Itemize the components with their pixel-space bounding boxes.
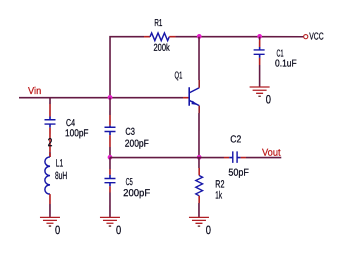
ground under C5: [100, 217, 120, 226]
junction dot at C3/C5 mid bus (110,157): [108, 155, 113, 160]
ground under C1: [250, 87, 270, 96]
wire: emitter down to mid rail: [198, 113, 200, 158]
wire: down from Vin rail: [49, 98, 51, 104]
wire: emitter red pin stub: [198, 106, 200, 113]
C2 right tick: [237, 157, 241, 159]
junction dot at C1 branch (259.6,36): [257, 34, 262, 39]
svg-text:2: 2: [48, 137, 53, 149]
C3 red pin stub top: [109, 115, 111, 126]
C5 red pin stub bottom: [109, 186, 111, 192]
wire: red pin stub into Q1 base: [183, 97, 189, 99]
wire: C4 to L1: [49, 152, 51, 157]
C4 bottom tick: [49, 124, 51, 128]
wire: C1 to ground: [259, 65, 261, 87]
C5 bottom plate: [104, 182, 115, 184]
C1 bottom tick: [259, 54, 261, 58]
wire: top rail collector junction to C1 junction: [199, 36, 260, 38]
svg-text:0: 0: [55, 223, 60, 237]
capacitor C2: [224, 151, 246, 163]
svg-text:0: 0: [266, 92, 271, 106]
C5 top plate: [104, 177, 115, 179]
wire: collector red pin stub: [198, 80, 200, 88]
wire: red pin stub right of R1: [169, 36, 175, 38]
C4 red pin stub bottom: [49, 128, 51, 152]
inductor L1: [45, 153, 50, 217]
C4 top tick: [49, 116, 51, 119]
C2 red pin stub left: [224, 157, 229, 159]
svg-text:8uH: 8uH: [55, 170, 67, 182]
C4 bottom plate: [45, 123, 56, 125]
wire: top rail left segment (corner at 110,36 down to Vin junction): [110, 37, 144, 98]
L1 coil: [45, 157, 50, 194]
C3 top tick: [109, 126, 111, 128]
C5 bottom tick: [109, 183, 111, 187]
junction dot at R1/collector (199,36): [197, 34, 202, 39]
C5 red pin stub top: [109, 169, 111, 175]
wire: top rail C1 junction to VCC port: [260, 36, 304, 38]
wire: emitter junction down: [198, 158, 200, 168]
C1 bottom plate: [254, 53, 265, 55]
wire: red pin stub left of R1: [144, 36, 150, 38]
svg-text:Vout: Vout: [262, 148, 281, 159]
ground under R2: [189, 217, 209, 226]
wire: Vin horizontal rail: [19, 97, 183, 99]
wire: L1 to ground: [49, 204, 51, 217]
R2 zigzag: [196, 176, 203, 196]
svg-text:0: 0: [116, 223, 121, 237]
wire: rail junction to C1 pin: [259, 37, 261, 40]
C2 right plate: [236, 151, 238, 163]
svg-text:C2: C2: [230, 134, 241, 145]
wire: C3 to mid junction: [109, 147, 111, 157]
svg-text:C5: C5: [126, 177, 133, 188]
svg-text:L1: L1: [56, 158, 64, 170]
svg-text:0.1uF: 0.1uF: [275, 59, 297, 70]
svg-text:200pF: 200pF: [123, 188, 150, 199]
C1 red pin stub bottom: [259, 58, 261, 65]
svg-text:1k: 1k: [215, 190, 222, 202]
C3 bottom tick: [109, 131, 111, 135]
svg-text:Vin: Vin: [28, 86, 41, 97]
Q1 base bar: [188, 87, 190, 106]
transistor Q1: [189, 87, 199, 106]
resistor R2: [196, 158, 203, 218]
svg-text:200k: 200k: [154, 43, 171, 54]
wire: top rail from R1 to collector junction: [176, 36, 200, 38]
C2 left plate: [232, 151, 234, 163]
wire: Vout segment: [246, 157, 281, 159]
Q1 collector diagonal: [189, 88, 199, 93]
svg-text:200pF: 200pF: [125, 139, 149, 150]
wire: mid rail emitter junction to C2: [199, 157, 224, 159]
wire: mid junction down: [109, 158, 111, 169]
resistor R1 zigzag: [150, 33, 169, 41]
C1 red pin stub top: [259, 40, 261, 47]
L1 red pin stub bottom: [49, 194, 51, 204]
svg-text:100pF: 100pF: [65, 128, 89, 139]
svg-text:R1: R1: [154, 18, 162, 29]
wire: C5 to ground: [109, 192, 111, 217]
junction dot at Vin/base bus (110,97): [108, 95, 113, 100]
junction dot at emitter/mid rail (199,157): [197, 155, 202, 160]
C1 top tick: [259, 47, 261, 50]
wire: mid rail from C3 junction to emitter junction: [110, 157, 199, 159]
C2 red pin stub right: [241, 157, 246, 159]
C3 red pin stub bottom: [109, 135, 111, 147]
svg-text:VCC: VCC: [309, 32, 324, 43]
node VCC port circle: [304, 35, 308, 39]
Q1 emitter diagonal: [189, 100, 199, 105]
C2 left tick: [229, 157, 233, 159]
R2 red pin stub top: [198, 168, 200, 176]
Q1 emitter arrowhead: [191, 101, 197, 105]
L1 red pin stub top: [49, 153, 51, 157]
svg-text:0: 0: [206, 223, 211, 237]
C1 top plate: [254, 49, 265, 51]
svg-text:Q1: Q1: [175, 71, 183, 82]
C3 bottom plate: [104, 130, 115, 132]
C5 top tick: [109, 175, 111, 179]
wire: bus down from Vin junction: [109, 98, 111, 115]
ground under L1: [40, 217, 60, 226]
wire: R2 to ground: [198, 203, 200, 217]
capacitor C4 branch: [44, 98, 55, 157]
svg-text:C3: C3: [125, 127, 135, 138]
R2 red pin stub bottom: [198, 196, 200, 203]
wire: collector up to rail (plum): [198, 37, 200, 80]
C4 top plate: [45, 119, 56, 121]
svg-text:50pF: 50pF: [228, 168, 249, 179]
capacitor C5: [104, 158, 115, 218]
capacitor C3: [104, 98, 115, 157]
C3 top plate: [104, 126, 115, 128]
C4 red pin stub top: [49, 104, 51, 117]
capacitor C1: [254, 37, 265, 87]
